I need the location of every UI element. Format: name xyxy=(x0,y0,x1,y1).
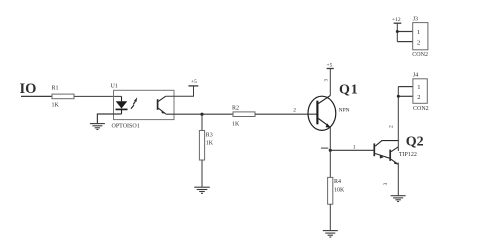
svg-text:CON2: CON2 xyxy=(413,106,429,112)
phototransistor inside U1 xyxy=(158,96,166,114)
svg-text:+12: +12 xyxy=(392,17,401,23)
svg-text:1K: 1K xyxy=(52,103,60,109)
power +5 (U1) xyxy=(188,79,198,86)
wire Q1 collector to +5 xyxy=(329,69,331,96)
svg-text:J4: J4 xyxy=(413,73,418,79)
svg-text:3: 3 xyxy=(383,182,389,185)
resistor R1 xyxy=(52,86,75,109)
svg-text:+5: +5 xyxy=(191,79,197,85)
power +5 (Q1) xyxy=(327,63,334,69)
ground (R4) xyxy=(323,231,338,237)
node J4 junction xyxy=(397,95,400,98)
svg-text:Q1: Q1 xyxy=(339,83,358,98)
wire emitter rail to Q2 base xyxy=(330,149,374,151)
svg-text:U1: U1 xyxy=(111,83,118,89)
svg-text:10K: 10K xyxy=(334,188,345,194)
resistor R3 xyxy=(199,131,213,161)
transistor Q2 TIP122 darlington xyxy=(374,135,423,165)
svg-text:1K: 1K xyxy=(206,141,214,147)
svg-text:2: 2 xyxy=(389,125,395,128)
svg-text:2: 2 xyxy=(293,107,296,113)
optocoupler U1 box xyxy=(114,90,175,119)
wire U1 collector to +5 xyxy=(166,86,194,96)
svg-text:OPTOISO1: OPTOISO1 xyxy=(112,124,140,130)
pin 1 tick Q1 emitter (rotated) xyxy=(321,147,328,149)
wire R1 to U1 xyxy=(74,95,122,97)
svg-text:3: 3 xyxy=(325,79,330,82)
wire U1 cathode to ground xyxy=(97,114,121,123)
ground (U1 LED) xyxy=(90,124,105,130)
wire IO to R1 xyxy=(21,95,52,97)
wire R2 to Q1 base xyxy=(255,113,318,115)
wire R3 to ground xyxy=(201,160,203,187)
svg-text:1: 1 xyxy=(353,144,356,150)
LED inside U1 xyxy=(116,96,128,114)
svg-text:CON2: CON2 xyxy=(412,52,428,58)
svg-text:+5: +5 xyxy=(327,63,333,69)
node junction emitter xyxy=(329,149,332,152)
wire Q1 emitter down xyxy=(329,127,331,150)
svg-text:2: 2 xyxy=(417,94,420,101)
svg-text:1K: 1K xyxy=(232,122,240,128)
connector J3 xyxy=(412,17,428,59)
svg-text:2: 2 xyxy=(417,39,420,46)
resistor R4 xyxy=(328,177,345,204)
svg-text:1: 1 xyxy=(417,29,420,36)
transistor Q1 xyxy=(308,83,358,131)
wire junction to R4 xyxy=(329,150,331,177)
power +12 (J3) xyxy=(392,17,401,42)
wire J4 pin1 stub xyxy=(398,86,413,88)
node J3 junction xyxy=(396,30,399,33)
node junction R3 xyxy=(200,113,203,116)
svg-text:TIP122: TIP122 xyxy=(399,152,417,158)
svg-text:NPN: NPN xyxy=(339,107,350,113)
wire Q2 emitter to ground xyxy=(397,163,399,196)
svg-text:R1: R1 xyxy=(52,86,59,92)
wire J3 pin2 stub xyxy=(397,41,412,43)
wire junction to R3 xyxy=(201,114,203,130)
ground (R3) xyxy=(194,187,210,193)
wire R4 to ground xyxy=(329,204,331,230)
svg-text:1: 1 xyxy=(417,84,420,91)
ground (Q2) xyxy=(391,196,406,202)
svg-text:R3: R3 xyxy=(206,133,213,139)
connector J4 xyxy=(413,73,429,113)
svg-text:J3: J3 xyxy=(413,17,418,23)
wire U1 emitter rail xyxy=(166,113,233,115)
svg-text:R4: R4 xyxy=(334,179,341,185)
wire J3 pin1 stub xyxy=(397,31,412,33)
wire Q2 collector up to J4 xyxy=(397,87,399,151)
wire J4 pin2 stub xyxy=(398,95,413,97)
svg-text:R2: R2 xyxy=(232,106,239,112)
svg-text:Q2: Q2 xyxy=(406,135,424,150)
photon arrow xyxy=(131,97,137,109)
svg-text:IO: IO xyxy=(20,81,37,97)
resistor R2 xyxy=(232,106,255,128)
